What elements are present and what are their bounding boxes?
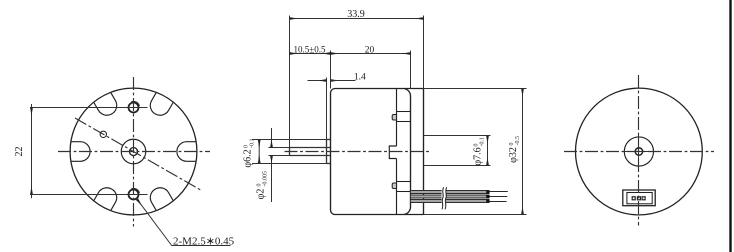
svg-text:φ2: φ2 <box>256 189 267 200</box>
bottom tab slot <box>397 181 411 183</box>
vent slot right (0 deg) <box>71 92 196 210</box>
centerlines front view <box>58 77 210 227</box>
drawing frame border (right) <box>729 0 731 252</box>
vent slot upper-right (60 deg) <box>147 92 174 119</box>
svg-text:-0.1: -0.1 <box>250 139 256 149</box>
phi2 label <box>256 171 269 199</box>
gearbox body <box>331 89 411 215</box>
shaft end circle <box>635 148 642 155</box>
rear view center crosshair <box>623 134 656 170</box>
rear cover <box>404 89 424 215</box>
connector outer <box>623 190 655 206</box>
vent slot lower-left (240 deg) <box>94 184 121 211</box>
phi2 dim <box>271 128 273 202</box>
center boss circle <box>121 139 146 164</box>
shaft tip <box>289 148 291 156</box>
phi32 label <box>508 136 521 163</box>
outer circle front face <box>70 88 197 215</box>
svg-text:0: 0 <box>256 184 262 187</box>
10.5 / 20 extensions <box>330 51 332 89</box>
top tab slot <box>397 111 411 113</box>
phi7.6 label <box>473 137 486 166</box>
1.4 dim arrows <box>308 80 327 82</box>
leader 2-M2.5*0.45 <box>137 199 231 245</box>
phi7.6 dim <box>487 136 489 166</box>
svg-text:φ6.2: φ6.2 <box>243 149 254 167</box>
vent slot upper-left (120 deg) <box>94 92 121 119</box>
svg-text:φ7.6: φ7.6 <box>473 147 484 165</box>
wire crimp tips <box>486 190 489 202</box>
svg-text:10.5±0.5: 10.5±0.5 <box>294 45 326 55</box>
svg-text:2-M2.5∗0.45: 2-M2.5∗0.45 <box>173 236 235 248</box>
M2.5 hole top <box>129 103 139 113</box>
rear view centerlines <box>564 75 714 226</box>
boss tip vertical + extension up <box>326 78 328 140</box>
rear bearing boss circle <box>624 137 653 166</box>
33.9 extensions <box>289 16 291 148</box>
rear outer circle <box>576 88 703 215</box>
phi6.2 label <box>243 139 256 168</box>
phi6.2 dim <box>258 140 260 164</box>
phi6.2 boss lines + extension lines <box>252 78 331 164</box>
pin hole on diagonal <box>100 131 106 137</box>
svg-text:22: 22 <box>14 147 25 157</box>
svg-text:0: 0 <box>509 143 515 146</box>
svg-text:33.9: 33.9 <box>347 9 365 20</box>
svg-text:-0.005: -0.005 <box>263 171 269 187</box>
20 dim line <box>331 53 411 55</box>
phi2 shaft lines + extensions <box>269 147 290 149</box>
pin 2 <box>637 197 640 200</box>
lead wires bundle <box>411 186 508 210</box>
phi32 + phi7.6 extension lines <box>424 89 527 215</box>
top dimensions <box>290 16 424 148</box>
top crimp tab <box>392 115 396 121</box>
svg-text:20: 20 <box>365 46 375 56</box>
svg-text:φ32: φ32 <box>508 147 519 163</box>
phi32 dim <box>522 89 524 215</box>
svg-text:-0.5: -0.5 <box>515 136 521 146</box>
wire thin ends <box>489 192 508 202</box>
wire gray cores <box>411 192 490 201</box>
bottom crimp tab <box>392 183 396 189</box>
pin 3 <box>642 197 645 200</box>
pin 1 <box>632 197 635 200</box>
M2.5 hole bottom <box>129 190 139 200</box>
connector inner <box>627 193 652 204</box>
middle view centerline <box>285 151 430 153</box>
shaft circle <box>130 148 138 156</box>
svg-text:1.4: 1.4 <box>354 72 366 82</box>
dim 22 line <box>31 104 33 198</box>
hole centerlines / 22-dim extension lines <box>30 104 148 198</box>
break symbol <box>442 186 446 210</box>
seam line <box>389 89 410 215</box>
vent slot lower-right (300 deg) <box>147 184 174 211</box>
wire edge lines <box>411 191 490 203</box>
svg-text:0: 0 <box>243 145 249 148</box>
svg-text:0: 0 <box>473 144 479 147</box>
vent slot left (180 deg) <box>71 142 90 162</box>
svg-text:-0.1: -0.1 <box>480 137 486 147</box>
33.9 dim line <box>290 18 424 20</box>
10.5 dim line <box>290 53 331 55</box>
